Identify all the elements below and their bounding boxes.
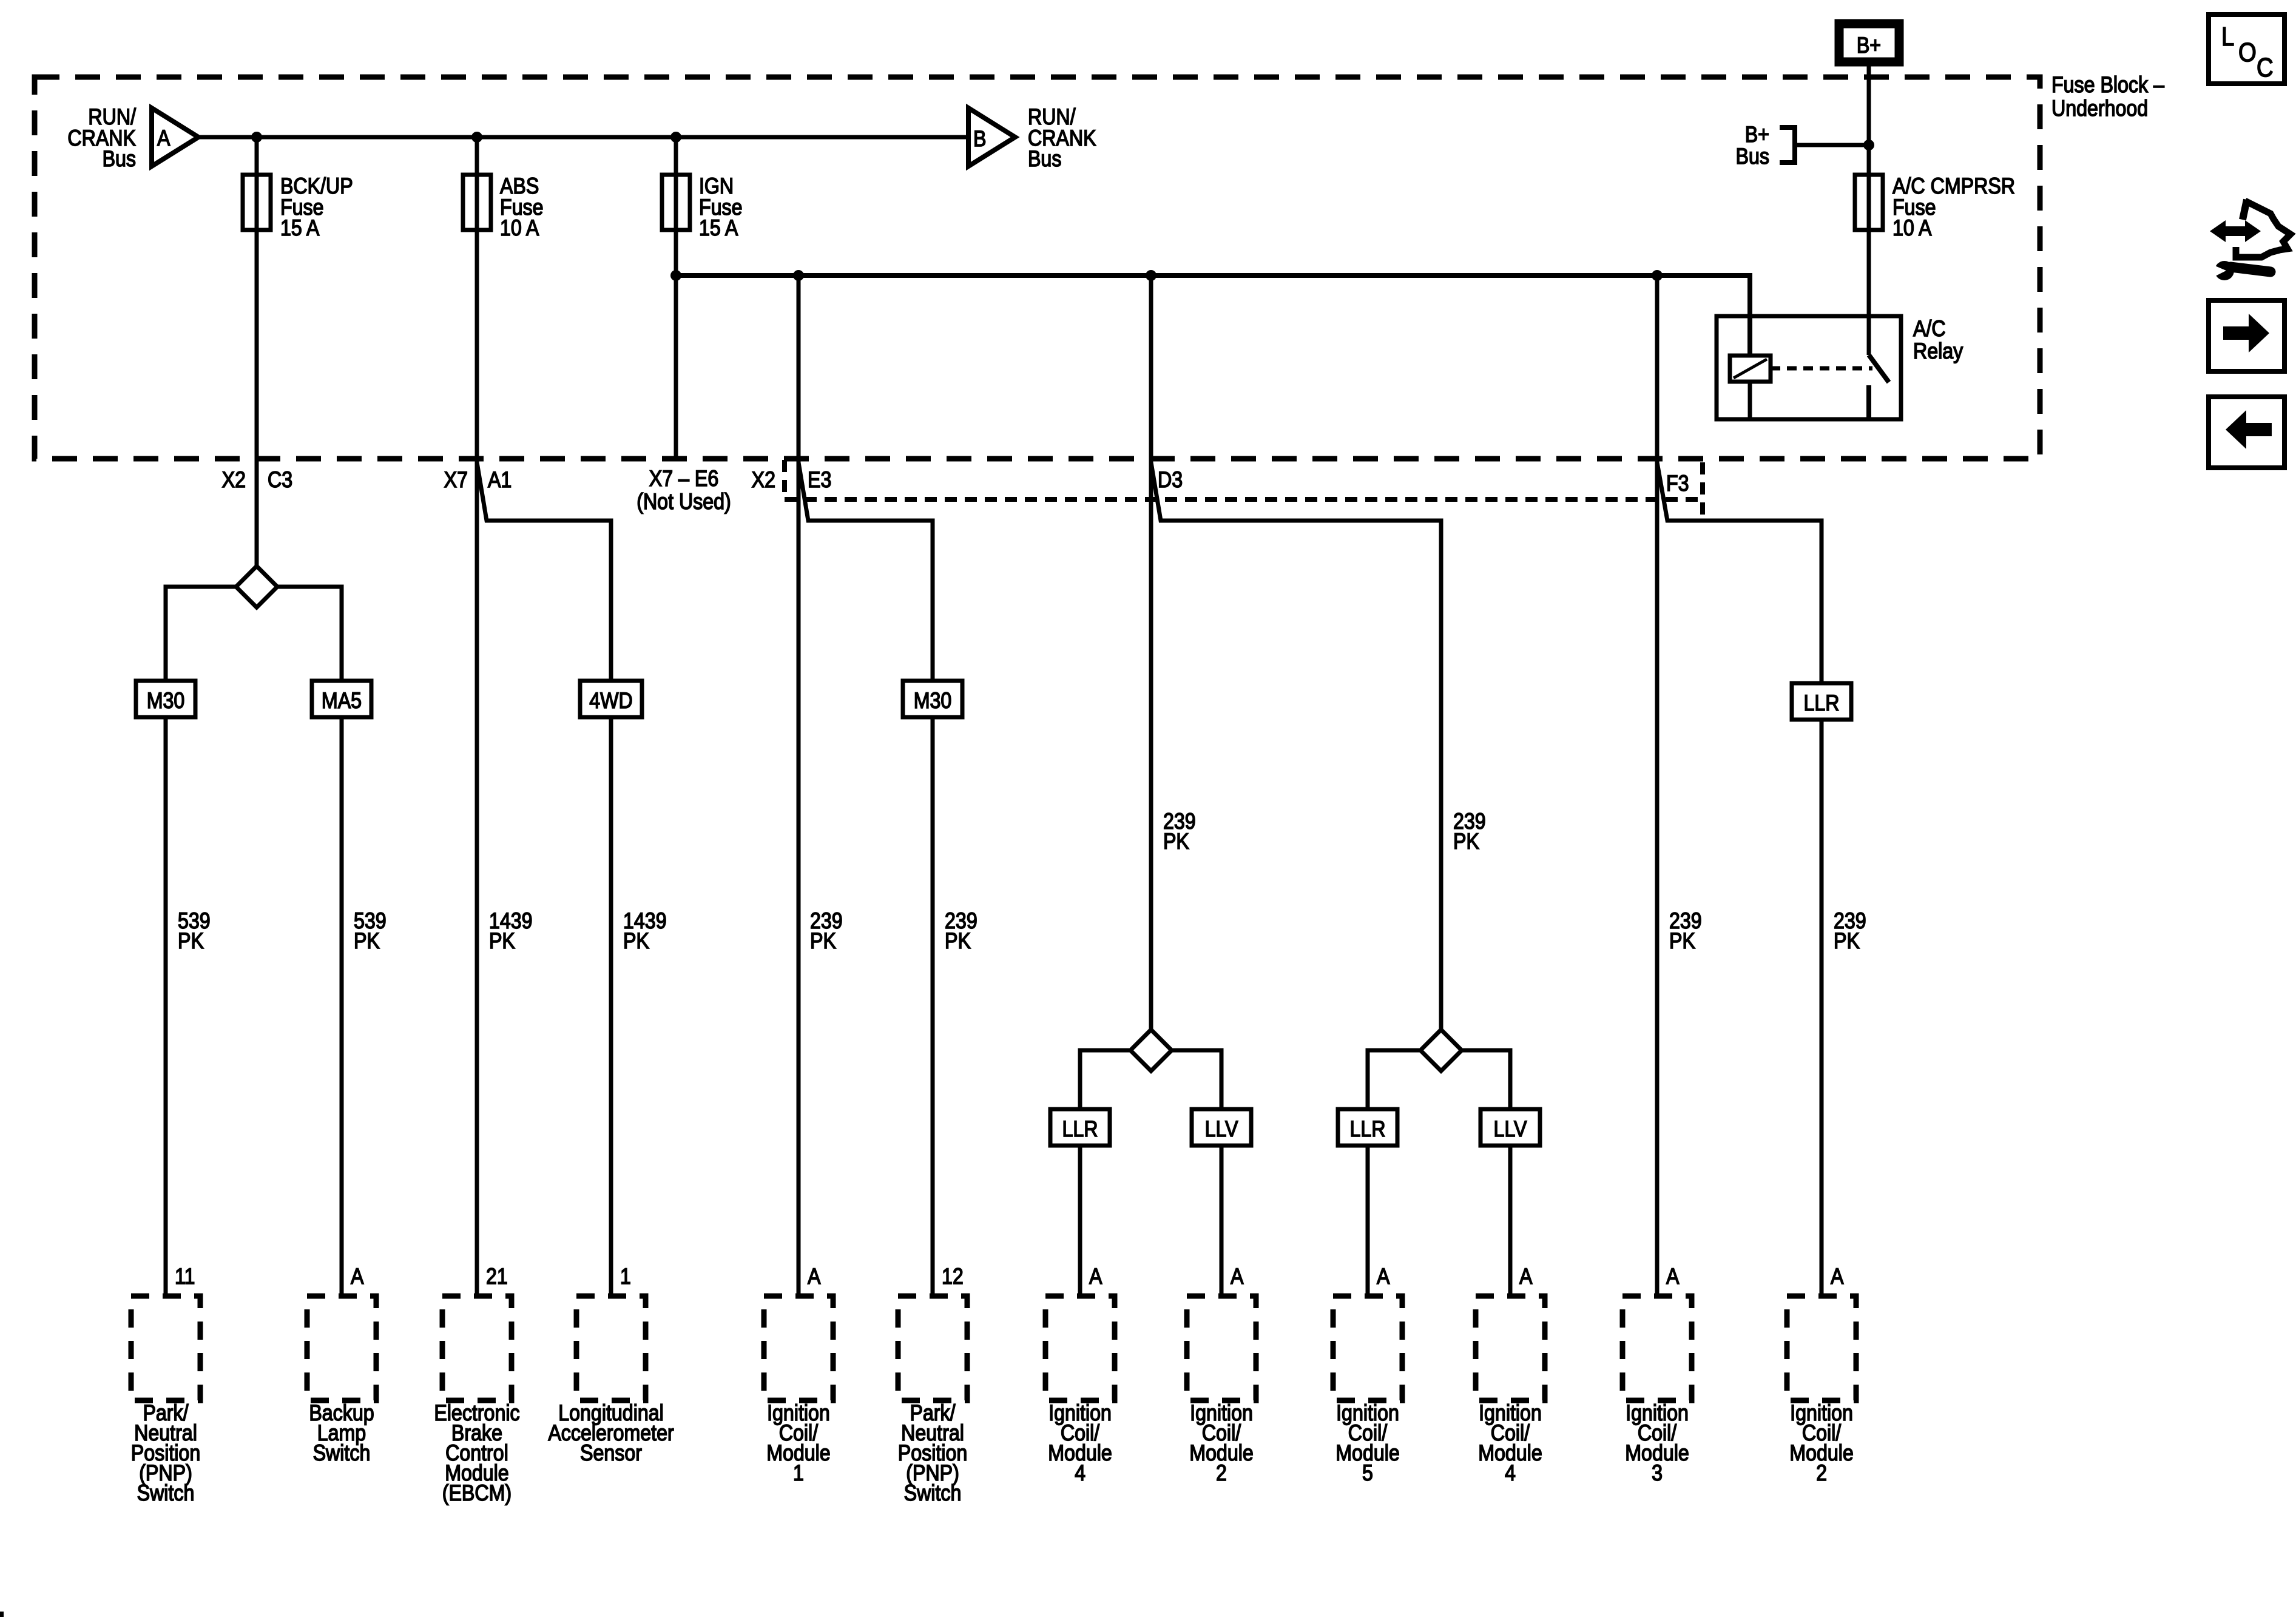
wire: E3 to ignition coil module 1 <box>797 275 801 1298</box>
svg-text:A1: A1 <box>488 468 512 493</box>
connector Ignition Coil/Module 2 (dashed box) <box>1187 1296 1256 1400</box>
connector MA5 (on backup lamp wire) <box>312 681 371 717</box>
label 239 PK (wire 5) <box>810 909 843 954</box>
svg-text:X2: X2 <box>752 468 775 493</box>
label: Fuse Block - Underhood <box>2051 73 2165 121</box>
svg-text:M30: M30 <box>914 689 952 714</box>
label 1439 PK (wire 3) <box>489 909 533 954</box>
label 239 PK (wire 7) <box>1163 809 1196 854</box>
svg-text:X7: X7 <box>444 468 468 493</box>
svg-text:A: A <box>1666 1264 1680 1289</box>
svg-text:LLV: LLV <box>1205 1117 1238 1142</box>
label A/C Relay <box>1913 317 1963 364</box>
connector LLR (module 5 wire) <box>1338 1109 1397 1146</box>
svg-text:F3: F3 <box>1666 471 1689 496</box>
label Backup Lamp Switch <box>309 1401 374 1466</box>
connector LLV (module 4 wire) <box>1481 1109 1540 1146</box>
svg-text:B+: B+ <box>1857 33 1881 58</box>
connector Ignition Coil/Module 3 (dashed box) <box>1622 1296 1692 1400</box>
svg-text:PK: PK <box>178 929 204 954</box>
wire: D3 jog to splice S3 <box>1151 462 1441 1031</box>
connector 4WD (on accelerometer wire) <box>580 681 642 717</box>
splice diamond S2 <box>1130 1030 1172 1071</box>
svg-text:4WD: 4WD <box>589 689 632 714</box>
wire: bus to BCK/UP fuse to splice <box>255 137 259 569</box>
wire: S3 left to LLR <box>1368 1050 1420 1298</box>
connector X2 separator (right) <box>1700 462 1705 519</box>
svg-text:C: C <box>2257 53 2274 83</box>
connector Ignition Coil/Module 5 (dashed box) <box>1333 1296 1402 1400</box>
label RUN/CRANK Bus (right) <box>1028 105 1096 172</box>
node B (RUN/CRANK Bus out-connector triangle) <box>968 108 1015 166</box>
junction B+ bus tap <box>1863 140 1874 150</box>
wire: splice left branch to PNP switch <box>166 587 236 1298</box>
icon LOC (location code box) <box>2209 15 2284 84</box>
label BCK/UP Fuse 15 A <box>280 174 353 241</box>
svg-text:A: A <box>1231 1264 1244 1289</box>
svg-text:4: 4 <box>1075 1461 1086 1486</box>
wire: F3 to ignition coil module 3 <box>1655 275 1660 1298</box>
node A (RUN/CRANK Bus in-connector triangle) <box>152 108 198 166</box>
svg-text:Relay: Relay <box>1913 339 1963 364</box>
svg-text:Switch: Switch <box>137 1481 195 1506</box>
splice diamond S3 <box>1420 1030 1462 1071</box>
svg-text:X7 – E6: X7 – E6 <box>649 467 718 491</box>
svg-text:LLR: LLR <box>1804 691 1840 716</box>
junction bus at IGN <box>670 270 681 281</box>
svg-text:A: A <box>1831 1264 1844 1289</box>
svg-text:X2: X2 <box>222 468 246 493</box>
connector M30 (on PNP wire) <box>136 681 195 717</box>
svg-text:PK: PK <box>1669 929 1695 954</box>
wire: branch jog to accelerometer sensor <box>477 462 611 1298</box>
fuse ABS 10 A <box>463 175 491 230</box>
wire: ignition feed bus <box>676 275 1750 356</box>
label RUN/CRANK Bus (left) <box>67 105 136 172</box>
label Longitudinal Accelerometer Sensor <box>548 1401 674 1466</box>
connector X2 strip (dotted) <box>785 497 1703 502</box>
svg-text:Sensor: Sensor <box>580 1441 642 1466</box>
svg-text:Switch: Switch <box>313 1441 371 1466</box>
connector LLR (module 2 wire) <box>1792 683 1851 720</box>
connector Longitudinal Accelerometer Sensor (dashed box) <box>576 1296 646 1400</box>
svg-text:1: 1 <box>620 1264 631 1289</box>
label Ignition Coil/Module 2 (2) <box>1789 1401 1854 1486</box>
connector LLR (module 4 wire) <box>1050 1109 1110 1146</box>
svg-text:PK: PK <box>1453 829 1479 854</box>
svg-text:Bus: Bus <box>1736 144 1769 169</box>
svg-text:2: 2 <box>1216 1461 1227 1486</box>
label 239 PK (wire 6) <box>945 909 977 954</box>
relay switch contact (fixed, bottom) <box>1866 385 1871 419</box>
junction bus at E3 <box>793 270 804 281</box>
label 239 PK (wire 12) <box>1834 909 1866 954</box>
label Ignition Coil/Module 1 <box>766 1401 831 1486</box>
svg-text:A: A <box>808 1264 821 1289</box>
label IGN Fuse 15 A <box>699 174 743 241</box>
label ABS Fuse 10 A <box>500 174 544 241</box>
connector Ignition Coil/Module 4 (2) (dashed box) <box>1476 1296 1545 1400</box>
wire: splice right branch to backup lamp switch <box>277 587 342 1298</box>
svg-text:PK: PK <box>354 929 380 954</box>
connector Park/Neutral Position (PNP) Switch (dashed box) <box>131 1296 200 1400</box>
svg-text:PK: PK <box>945 929 971 954</box>
svg-text:LLR: LLR <box>1062 1117 1098 1142</box>
icon back arrow (previous page) <box>2209 397 2284 468</box>
svg-text:Fuse Block –: Fuse Block – <box>2051 73 2165 98</box>
connector LLV (module 2 wire) <box>1192 1109 1251 1146</box>
label Ignition Coil/Module 2 <box>1189 1401 1254 1486</box>
label Park/Neutral Position (PNP) Switch <box>131 1401 200 1506</box>
connector Electronic Brake Control Module (EBCM) (dashed box) <box>442 1296 512 1400</box>
wire: relay coil lead (bottom) <box>1748 382 1752 419</box>
svg-text:LLR: LLR <box>1349 1117 1385 1142</box>
svg-text:3: 3 <box>1652 1461 1663 1486</box>
junction at ABS fuse <box>471 132 482 143</box>
relay coil K1 <box>1730 356 1771 382</box>
wire: B+ to A/C CMPRSR fuse to relay switch <box>1867 66 1871 355</box>
wire: bus to ABS fuse to EBCM <box>475 137 479 1298</box>
wire: F3 jog to ignition coil module 2 <box>1657 462 1822 1298</box>
label Park/Neutral Position (PNP) Switch pin 12 <box>898 1401 967 1506</box>
svg-text:11: 11 <box>175 1264 195 1289</box>
svg-text:PK: PK <box>1834 929 1860 954</box>
svg-text:4: 4 <box>1505 1461 1516 1486</box>
terminal B+ (battery feed) <box>1839 24 1899 62</box>
label A/C CMPRSR Fuse 10 A <box>1893 174 2015 241</box>
junction bus at F3 <box>1652 270 1663 281</box>
junction at IGN fuse <box>670 132 681 143</box>
connector Ignition Coil/Module 1 (dashed box) <box>764 1296 833 1400</box>
svg-text:A: A <box>157 126 171 151</box>
label X7 - E6 (Not Used) <box>636 467 731 515</box>
fuse block - underhood (dashed outline) <box>35 77 2040 459</box>
label 239 PK (wire 11) <box>1669 909 1702 954</box>
label 239 PK (wire 8) <box>1453 809 1486 854</box>
svg-text:A: A <box>1377 1264 1390 1289</box>
fuse IGN 15 A <box>662 175 690 230</box>
label B+ Bus <box>1736 123 1769 169</box>
svg-text:PK: PK <box>489 929 515 954</box>
svg-text:E3: E3 <box>808 468 831 493</box>
label 539 PK (wire 1) <box>178 909 211 954</box>
svg-text:A: A <box>1519 1264 1533 1289</box>
relay actuation link (dashed) <box>1771 366 1872 371</box>
label Ignition Coil/Module 5 <box>1335 1401 1400 1486</box>
page mark (bottom-left) <box>0 1612 4 1617</box>
svg-text:PK: PK <box>810 929 836 954</box>
fuse A/C CMPRSR 10 A <box>1855 175 1883 230</box>
svg-text:Underhood: Underhood <box>2051 96 2148 121</box>
label Electronic Brake Control Module (EBCM) <box>434 1401 519 1506</box>
connector M30 (on PNP 12 wire) <box>903 681 962 717</box>
icon forward arrow (next page) <box>2209 300 2284 371</box>
svg-text:10 A: 10 A <box>500 216 539 241</box>
label 1439 PK (wire 4) <box>623 909 667 954</box>
relay switch contact (movable blade) <box>1869 355 1889 382</box>
svg-text:5: 5 <box>1362 1461 1373 1486</box>
wire: RUN/CRANK bus <box>198 135 968 140</box>
svg-text:21: 21 <box>486 1264 508 1289</box>
label 539 PK (wire 2) <box>354 909 387 954</box>
svg-text:A: A <box>1089 1264 1102 1289</box>
svg-text:B: B <box>973 127 986 152</box>
connector Ignition Coil/Module 2 (2) (dashed box) <box>1787 1296 1856 1400</box>
wire: S3 right to LLV <box>1462 1050 1510 1298</box>
svg-text:D3: D3 <box>1158 468 1183 493</box>
svg-text:MA5: MA5 <box>322 689 362 714</box>
wire: D3 to splice S2 <box>1149 275 1153 1031</box>
svg-text:A: A <box>351 1264 364 1289</box>
junction bus at D3 <box>1146 270 1156 281</box>
svg-text:2: 2 <box>1816 1461 1827 1486</box>
fuse BCK/UP 15 A <box>243 175 271 230</box>
wire: E3 jog to PNP switch pin 12 <box>799 462 933 1298</box>
svg-text:LLV: LLV <box>1494 1117 1527 1142</box>
wire: S2 right to LLV <box>1172 1050 1221 1298</box>
svg-text:15 A: 15 A <box>280 216 320 241</box>
connector X2 separator (left) <box>782 460 787 493</box>
label Ignition Coil/Module 4 <box>1048 1401 1112 1486</box>
svg-text:Bus: Bus <box>1028 147 1061 172</box>
svg-text:B+: B+ <box>1745 123 1769 147</box>
connector Ignition Coil/Module 4 (dashed box) <box>1045 1296 1115 1400</box>
svg-text:12: 12 <box>942 1264 964 1289</box>
svg-text:1: 1 <box>793 1461 804 1486</box>
svg-text:L: L <box>2221 22 2234 52</box>
svg-text:M30: M30 <box>147 689 185 714</box>
label Ignition Coil/Module 4 (2) <box>1478 1401 1542 1486</box>
svg-text:Bus: Bus <box>103 147 136 172</box>
svg-text:PK: PK <box>1163 829 1189 854</box>
wire: S2 left to LLR <box>1080 1050 1130 1298</box>
svg-text:(EBCM): (EBCM) <box>442 1481 512 1506</box>
label Ignition Coil/Module 3 <box>1625 1401 1689 1486</box>
node B+ Bus (bracket) <box>1780 127 1869 163</box>
svg-text:PK: PK <box>623 929 649 954</box>
svg-text:10 A: 10 A <box>1893 216 1932 241</box>
junction at BCK/UP fuse <box>251 132 262 143</box>
relay A/C (box) <box>1717 316 1901 419</box>
svg-text:Switch: Switch <box>904 1481 962 1506</box>
icon service vehicle (double arrow, hood outline, wrench) <box>2209 200 2291 280</box>
svg-text:15 A: 15 A <box>699 216 738 241</box>
svg-text:(Not Used): (Not Used) <box>636 490 731 515</box>
connector Park/Neutral Position (PNP) Switch pin 12 (dashed box) <box>898 1296 967 1400</box>
connector Backup Lamp Switch (dashed box) <box>307 1296 376 1400</box>
splice diamond S1 <box>236 566 277 607</box>
svg-text:A/C: A/C <box>1913 317 1946 342</box>
svg-text:C3: C3 <box>268 468 292 493</box>
svg-text:O: O <box>2238 38 2257 67</box>
wire: bus to IGN fuse to X7-E6 <box>674 137 678 459</box>
